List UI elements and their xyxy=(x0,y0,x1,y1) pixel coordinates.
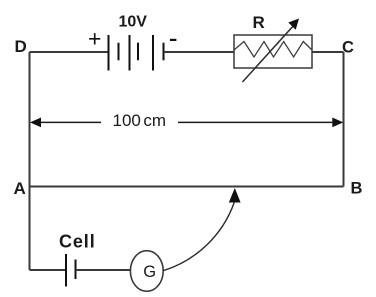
svg-text:B: B xyxy=(351,180,363,198)
svg-text:+: + xyxy=(88,25,101,51)
svg-text:10V: 10V xyxy=(119,14,148,31)
rheostat R box xyxy=(234,35,312,68)
svg-text:C: C xyxy=(342,39,354,57)
cell bars xyxy=(66,254,76,287)
wire: A-B horizontal xyxy=(30,186,344,188)
wire: bottom to cell xyxy=(30,269,67,271)
label - xyxy=(170,39,176,41)
svg-text:D: D xyxy=(15,37,27,56)
wire: right vertical C-B xyxy=(343,52,345,187)
svg-text:R: R xyxy=(253,13,265,32)
svg-text:G: G xyxy=(143,263,156,281)
rheostat zigzag xyxy=(234,42,312,58)
battery 10V xyxy=(109,35,164,71)
wire: left vertical D-A-cell xyxy=(29,52,31,270)
rheostat arrow (diagonal) xyxy=(243,24,296,82)
dimension arrowhead left xyxy=(30,118,41,128)
svg-text:A: A xyxy=(14,179,26,198)
wire: rheostat to C corner xyxy=(312,51,344,53)
wire: battery to rheostat xyxy=(164,51,235,53)
wire: top segment D to battery xyxy=(30,51,109,53)
dimension arrowhead right xyxy=(332,118,343,128)
dimension line 100cm xyxy=(38,121,335,123)
wire: cell to galvanometer xyxy=(76,269,131,271)
svg-text:Cell: Cell xyxy=(59,232,96,252)
jockey curved wire with arrow xyxy=(163,203,234,271)
galvanometer G circle xyxy=(130,251,163,292)
jockey arrowhead xyxy=(229,188,241,203)
svg-text:100cm: 100cm xyxy=(113,111,167,130)
